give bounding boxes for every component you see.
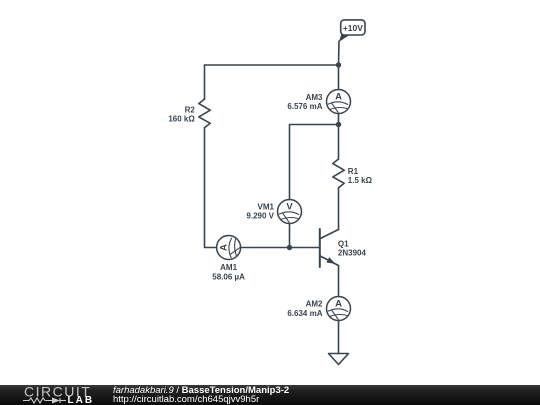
svg-text:2N3904: 2N3904 — [338, 249, 367, 258]
svg-text:AM2: AM2 — [306, 300, 323, 309]
svg-text:LAB: LAB — [68, 395, 95, 405]
svg-text:http://circuitlab.com/ch645qjv: http://circuitlab.com/ch645qjvv9h5r — [113, 394, 259, 405]
svg-text:9.290 V: 9.290 V — [246, 212, 274, 221]
svg-text:R2: R2 — [185, 105, 196, 114]
svg-text:AM3: AM3 — [306, 93, 323, 102]
svg-text:AM1: AM1 — [220, 263, 237, 272]
svg-text:Q1: Q1 — [338, 239, 349, 248]
svg-text:6.634 mA: 6.634 mA — [287, 309, 322, 318]
svg-text:+10V: +10V — [343, 23, 363, 33]
svg-text:1.5 kΩ: 1.5 kΩ — [348, 176, 373, 185]
svg-text:R1: R1 — [348, 167, 359, 176]
svg-text:58.06 µA: 58.06 µA — [212, 272, 245, 281]
svg-text:160 kΩ: 160 kΩ — [168, 114, 195, 123]
svg-text:VM1: VM1 — [258, 202, 275, 211]
svg-text:6.576 mA: 6.576 mA — [287, 102, 322, 111]
